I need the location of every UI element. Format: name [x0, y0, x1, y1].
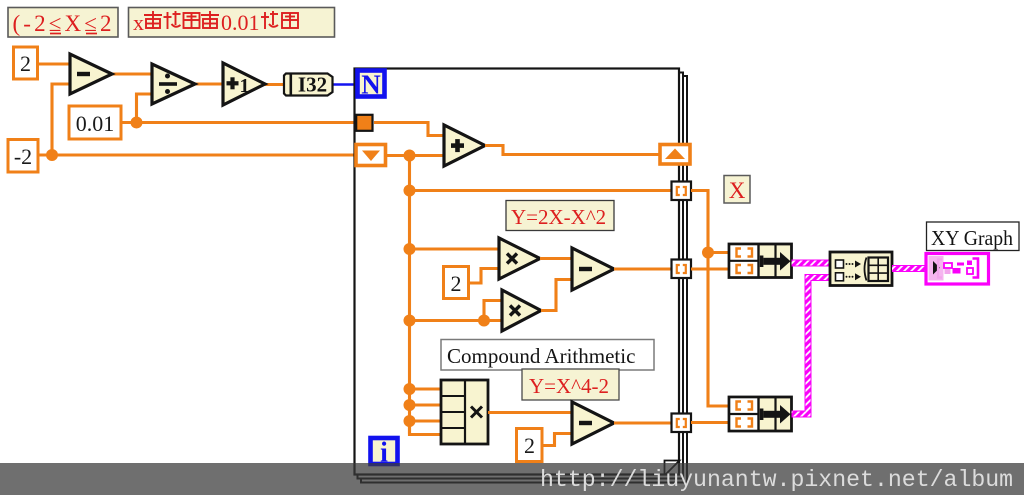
wire SR to add / main vertical: [384, 154, 444, 157]
junction -2: [46, 149, 58, 161]
subtract F1: [70, 54, 112, 94]
branch to multiply2 top: [484, 301, 502, 321]
magenta wire build-xy to XY Graph: [892, 265, 926, 272]
wire tunnelX out to bundles: [691, 191, 729, 253]
svg-text:-2: -2: [14, 144, 32, 169]
wire branch -2 up to subtract: [52, 84, 70, 155]
compound arithmetic node: [441, 380, 488, 444]
wire X row to tunnel: [410, 189, 673, 192]
svg-text:2: 2: [451, 271, 462, 296]
wire divide to +1: [195, 82, 223, 85]
multiply2: [502, 290, 541, 331]
blue wire I32 to N: [332, 83, 357, 86]
label L2 "x axis 0.01 unit" (CJK): [129, 8, 335, 38]
wire tunnel2 to bundle1: [691, 267, 729, 270]
constant -2: [8, 140, 38, 173]
svg-text:N: N: [361, 70, 381, 100]
constant 2a: [444, 267, 469, 299]
i terminal: [371, 438, 398, 469]
tunnel X (auto-index out): [672, 182, 692, 201]
svg-text:XY Graph: XY Graph: [931, 226, 1013, 250]
wire subtract2 to tunnel2: [614, 267, 672, 270]
svg-text:Compound Arithmetic: Compound Arithmetic: [447, 344, 635, 368]
svg-text:http://liuyunantw.pixnet.net/a: http://liuyunantw.pixnet.net/album: [540, 467, 1013, 493]
label Y=X^4-2: [522, 369, 619, 400]
watermark band: [0, 463, 1024, 495]
svg-text:0.01: 0.01: [221, 10, 260, 35]
svg-text:Y=2X-X^2: Y=2X-X^2: [511, 205, 606, 229]
N terminal: [358, 70, 385, 100]
subtract3: [572, 402, 614, 444]
wire to multiply1 top: [410, 247, 500, 250]
increment +1 F3: [223, 63, 265, 105]
label XY Graph: [927, 222, 1020, 251]
wire tunnel to add: [374, 123, 444, 136]
svg-text:2: 2: [524, 433, 535, 458]
magenta wire bundle2 to build-xy: [792, 278, 832, 415]
wire tunnel3 to bundle2: [691, 421, 729, 424]
label Y=2X-X^2: [506, 201, 614, 231]
main vertical wire: [408, 156, 411, 435]
tunnel orange square (0.01 in): [356, 115, 372, 131]
tunnel 3: [672, 414, 692, 433]
wire 0.01 branch to divide: [137, 94, 153, 123]
wires compound arithmetic inputs: [410, 387, 442, 390]
right shift register (up arrow): [660, 145, 690, 165]
subtract2: [572, 248, 614, 290]
divide F2: [152, 64, 195, 104]
add F4: [444, 125, 485, 166]
wire +1 to I32: [265, 83, 285, 86]
label X: [724, 176, 750, 204]
wire subtract to divide: [112, 72, 152, 75]
svg-text:Y=X^4-2: Y=X^4-2: [529, 374, 609, 398]
label Compound Arithmetic: [441, 340, 654, 371]
wire 2a to multiply1: [468, 269, 499, 284]
wire -2 to shift register: [38, 153, 356, 156]
XY Graph terminal: [926, 254, 989, 285]
wire 2 to subtract: [37, 62, 70, 65]
bundle 2: [729, 397, 792, 431]
build xy graph node: [830, 252, 892, 286]
constant 2: [14, 47, 38, 79]
left shift register (down arrow): [356, 145, 386, 166]
wire add out to right shift register: [485, 146, 660, 155]
tunnel 2: [672, 260, 692, 279]
dog ear corner: [665, 461, 680, 475]
wire CA out to subtract3: [488, 411, 572, 414]
svg-text:0.01: 0.01: [76, 111, 115, 136]
svg-text:X: X: [729, 178, 746, 203]
multiply1: [499, 238, 540, 279]
wire 2b to subtract3: [541, 434, 572, 446]
constant 2b: [517, 429, 543, 462]
label L1 "(-2<=X<=2": [8, 8, 118, 38]
junction 0.01: [131, 117, 143, 129]
svg-text:1: 1: [240, 75, 250, 97]
wire X row y320: [410, 319, 503, 322]
magenta wire bundle1 to build-xy: [792, 260, 832, 267]
wire multiply1 to subtract2: [540, 257, 572, 260]
svg-text:x: x: [133, 10, 144, 35]
wire subtract3 to tunnel3: [614, 421, 672, 424]
junction SR row: [404, 150, 416, 162]
for loop back frame 2: [358, 73, 684, 479]
svg-text:I32: I32: [298, 73, 327, 97]
bundle 1: [729, 244, 792, 278]
for loop back frame 3: [361, 76, 687, 483]
I32 conversion: [284, 73, 333, 97]
wire multiply2 to subtract2: [541, 280, 572, 311]
for loop front frame: [355, 69, 680, 475]
svg-text:2: 2: [20, 51, 31, 76]
constant 0.01: [69, 106, 121, 139]
wire 0.01 out: [121, 121, 357, 124]
